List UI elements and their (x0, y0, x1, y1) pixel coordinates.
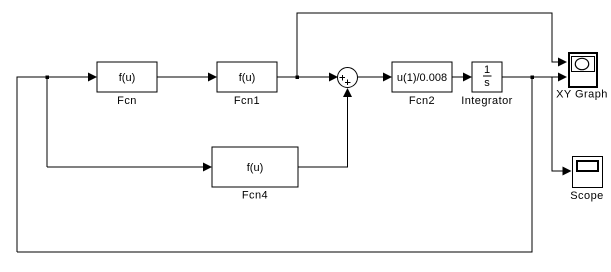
svg-text:f(u): f(u) (119, 72, 136, 84)
svg-text:Scope: Scope (570, 190, 603, 202)
svg-text:f(u): f(u) (239, 72, 256, 84)
svg-text:Integrator: Integrator (461, 95, 513, 107)
svg-text:Fcn1: Fcn1 (234, 95, 260, 107)
svg-text:XY Graph: XY Graph (556, 89, 608, 101)
svg-text:f(u): f(u) (247, 162, 264, 174)
svg-text:s: s (484, 77, 490, 89)
svg-text:Fcn2: Fcn2 (409, 95, 435, 107)
svg-text:1: 1 (484, 64, 490, 76)
svg-text:Fcn4: Fcn4 (242, 190, 268, 202)
svg-text:Fcn: Fcn (117, 95, 137, 107)
svg-text:u(1)/0.008: u(1)/0.008 (397, 72, 447, 84)
